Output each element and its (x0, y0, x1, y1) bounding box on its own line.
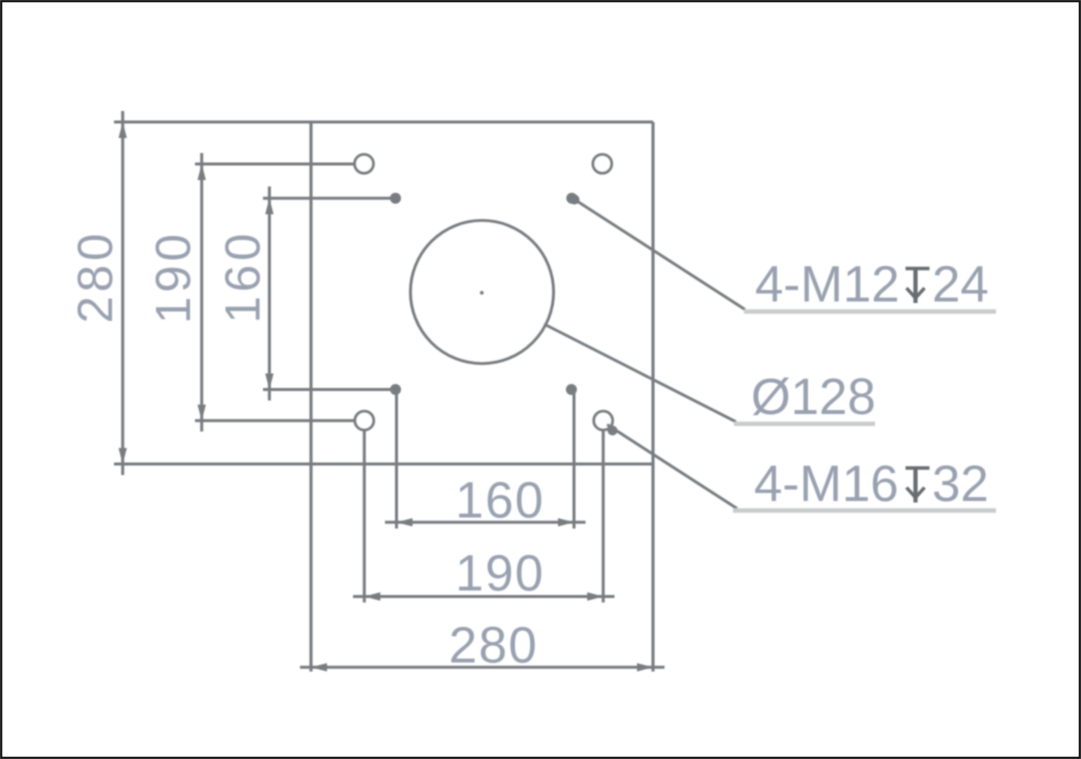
hole M12 bottom-left (390, 384, 401, 395)
vertical dimension line 190 (195, 153, 367, 432)
bottom dimension line 160 with extension lines (385, 391, 586, 529)
dimension text 160 vertical (217, 230, 271, 324)
svg-text:190: 190 (147, 230, 201, 324)
bottom dimension line 280 (300, 663, 665, 671)
svg-text:160: 160 (217, 230, 271, 324)
plate outline bottom edge (extended left to 280 dimension) (114, 462, 653, 465)
svg-text:280: 280 (449, 617, 539, 674)
dimension text 190 vertical (147, 230, 201, 324)
leader line for D128 label (544, 324, 875, 424)
hole M16 top-right (593, 154, 612, 173)
leader line for 4-M12 label (570, 195, 997, 312)
svg-text:160: 160 (455, 472, 545, 529)
central bore circle D128 (411, 221, 554, 364)
leader line for 4-M16 label (607, 425, 996, 511)
svg-text:24: 24 (932, 256, 989, 313)
bottom dimension line 190 with extension lines (353, 422, 615, 603)
svg-text:190: 190 (455, 545, 545, 602)
dimension text 160 bottom (455, 472, 545, 529)
dimension text 280 bottom (449, 617, 539, 674)
hole M12 top-right (566, 193, 577, 204)
vertical dimension line 280 (119, 111, 127, 475)
svg-text:32: 32 (932, 455, 989, 512)
svg-text:4-M12: 4-M12 (755, 256, 900, 313)
label diameter 128 (751, 368, 876, 425)
dimension text 280 vertical (69, 230, 123, 324)
plate outline top edge (extended left to 280 dimension) (114, 120, 653, 123)
svg-text:280: 280 (69, 230, 123, 324)
plate outline right edge (extended down as 280 extension) (651, 122, 654, 672)
svg-text:4-M16: 4-M16 (754, 455, 899, 512)
plate outline left edge (extended down as 280 extension) (309, 122, 312, 672)
hole M12 bottom-right (566, 384, 577, 395)
hole M16 top-left (355, 154, 374, 173)
hole M12 top-left (390, 193, 401, 204)
hole M16 bottom-left (355, 411, 374, 430)
vertical dimension line 160 (263, 187, 398, 401)
label 4-M12 depth 24 (755, 256, 989, 313)
svg-text:Ø128: Ø128 (751, 368, 876, 425)
hole M16 bottom-right (594, 411, 613, 430)
dimension text 190 bottom (455, 545, 545, 602)
label 4-M16 depth 32 (754, 455, 989, 512)
